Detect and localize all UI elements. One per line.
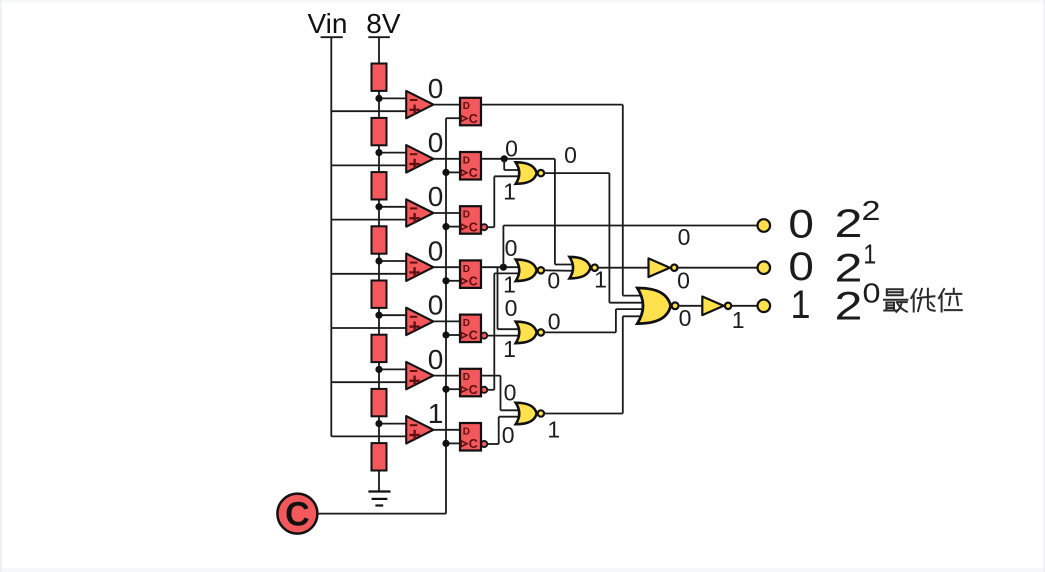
inverter U8 for bit 2^1 [649,258,678,277]
wire clock bus vertical [445,118,447,513]
D flip-flop FF6 [460,369,487,397]
wire Q2 into NOR G3 input 1 [555,264,578,266]
svg-text:D: D [463,318,470,329]
resistor R7 [372,389,387,416]
wire bit 2^0 output line [730,305,757,307]
wire Vin input bus vertical [330,38,332,436]
node Q2 fanout junction [501,155,508,162]
svg-text:0: 0 [428,344,444,375]
wire FF4 Q output Q4 into NOR G2 input 1 [481,266,524,268]
wire Q1 drop to output NOR [622,105,624,296]
wire G4 output into output NOR input 3 [616,308,649,310]
wire clock stub to FF5 C input [446,334,460,336]
svg-text:1: 1 [503,272,516,298]
node clock bus junction row 6 [442,386,449,393]
FF7 inverted output bubble [481,441,487,447]
resistor R1 [372,64,387,91]
svg-text:0: 0 [428,181,444,212]
svg-text:D: D [463,426,470,437]
inverter U9 for bit 2^0 [702,297,731,316]
wire clock stub to FF6 C input [446,388,460,390]
wire Vin branch to comparator U3 non-inverting input [331,219,408,221]
wire Q4 into NOR G4 input 1 [498,328,524,330]
wire Vin branch to comparator U7 non-inverting input [331,435,408,437]
wire G1 output into output NOR input 2 [609,302,649,304]
svg-text:0: 0 [505,295,518,321]
svg-text:1: 1 [594,267,607,293]
svg-text:C: C [469,112,478,126]
wire G5 output into output NOR input 4 [623,315,649,317]
weight label 2^1 [835,239,877,291]
NOR gate G5 [516,403,544,425]
wire Q2 drop to NOR G3 [554,159,556,265]
wire G4 output riser to output NOR [615,309,617,332]
comparator U7 [406,416,433,443]
wire FF7 inverted output stub [487,443,499,445]
weight label 2^2 [835,195,881,246]
svg-text:0: 0 [863,278,881,309]
D flip-flop FF2 [460,152,481,180]
wire ladder node 2 to comparator U2 inverting input [379,152,408,154]
wire bit 2^1 output line [676,267,757,269]
svg-text:D: D [463,155,470,166]
svg-text:0: 0 [547,268,560,294]
output terminal 2^1 [758,261,771,274]
wire notQ7 into NOR G5 input 2 [499,416,524,418]
comparator U2 [406,145,433,172]
comparator U3 [406,199,433,226]
svg-text:C: C [469,275,478,289]
wire resistor ladder vertical [378,38,380,492]
wire comparator U5 output to FF5 D input [433,320,460,322]
wire Q4 riser to 2^2 output line [502,226,504,268]
wire 8V label bar [368,36,390,38]
svg-text:0: 0 [428,73,444,104]
FF6 inverted output bubble [481,387,487,393]
svg-text:8V: 8V [366,8,401,39]
svg-text:C: C [285,496,310,534]
wire clock source to clock bus [317,513,446,515]
wire G5 output riser to output NOR [622,316,624,413]
resistor R4 [372,226,387,253]
wire Q2 into NOR G1 input 1 [504,169,523,171]
wire clock stub to FF1 C input [446,117,460,119]
wire clock stub to FF4 C input [446,280,460,282]
wire Vin branch to comparator U1 non-inverting input [331,110,408,112]
D flip-flop FF5 [460,315,487,343]
D flip-flop FF1 [460,98,481,126]
svg-text:0: 0 [505,235,518,261]
svg-text:D: D [463,210,470,221]
svg-text:C: C [469,329,478,343]
node clock bus junction row 3 [442,223,449,230]
node clock bus junction row 5 [442,331,449,338]
wire Vin branch to comparator U6 non-inverting input [331,381,408,383]
node ladder node 5 [375,312,382,319]
node clock bus junction row 7 [442,440,449,447]
wire FF5 inverted output notQ5 into NOR G4 input 2 [487,335,523,337]
wire ladder node 5 to comparator U5 inverting input [379,314,408,316]
wire G4 output [543,331,616,333]
wire notQ3 into NOR G1 input 2 [494,175,523,177]
wire comparator U7 output to FF7 D input [433,429,460,431]
wire Vin label bar [321,36,343,38]
node ladder node 4 [375,257,382,264]
svg-text:1: 1 [863,239,876,270]
svg-text:Vin: Vin [308,8,348,39]
wire Vin branch to comparator U5 non-inverting input [331,327,408,329]
output NOR gate G6 [637,288,678,324]
weight label 2^0 [835,278,881,329]
svg-text:1: 1 [503,336,516,362]
output terminal 2^2 [758,219,771,232]
resistor R6 [372,335,387,362]
resistor R8 [372,443,387,470]
wire Q4 drop to NOR G4 [497,267,499,329]
svg-text:2: 2 [835,285,863,329]
wire G2 output into NOR G3 input 2 [543,269,577,272]
wire comparator U6 output to FF6 D input [433,375,460,377]
wire notQ7 riser to NOR G5 [498,417,500,444]
comparator U1 [406,91,433,118]
svg-text:D: D [463,101,470,112]
wire ladder node 3 to comparator U3 inverting input [379,206,408,208]
wire ladder node 4 to comparator U4 inverting input [379,260,408,262]
svg-text:1: 1 [732,307,745,333]
NOR gate G3 [570,257,598,279]
node clock bus junction row 4 [442,277,449,284]
svg-text:0: 0 [428,235,444,266]
wire G1 output [543,172,609,174]
svg-text:C: C [469,383,478,397]
D flip-flop FF4 [460,260,481,288]
wire ladder node 7 to comparator U7 inverting input [379,423,408,425]
FF5 inverted output bubble [481,333,487,339]
wire FF6 inverted output stub [487,389,494,391]
clock source C [277,494,317,534]
svg-text:0: 0 [428,127,444,158]
svg-text:0: 0 [788,203,814,247]
wire comparator U1 output to FF1 D input [433,104,460,106]
wire clock stub to FF7 C input [446,442,460,444]
wire notQ6 riser to NOR G2 [493,273,495,389]
resistor R3 [372,172,387,199]
wire comparator U4 output to FF4 D input [433,266,460,268]
D flip-flop FF3 [460,206,487,234]
svg-text:D: D [463,264,470,275]
wire Q6 drop to NOR G5 [500,376,502,411]
node ladder node 7 [375,420,382,427]
svg-text:2: 2 [862,195,881,226]
svg-text:C: C [469,220,478,234]
wire G6 output to inverter [678,305,703,307]
svg-text:2: 2 [835,202,863,246]
wire Q2 jog down to NOR G1 [503,159,505,170]
node ladder node 3 [375,203,382,210]
node ladder node 2 [375,149,382,156]
wire notQ6 into NOR G2 input 2 [494,272,523,274]
svg-text:D: D [463,372,470,383]
svg-text:0: 0 [505,136,518,162]
node Q4 fanout junction [500,264,507,271]
wire Q6 into NOR G5 input 1 [501,409,524,411]
wire FF3 inverted output stub [487,226,494,228]
node ladder node 6 [375,366,382,373]
NOR gate G2 [516,260,544,282]
wire FF6 Q output Q6 [481,375,501,377]
svg-text:0: 0 [677,268,690,294]
wire ladder node 6 to comparator U6 inverting input [379,368,408,370]
resistor R5 [372,281,387,308]
wire bit 2^2 output line [503,225,757,227]
FF3 inverted output bubble [481,224,487,230]
svg-text:C: C [469,437,478,451]
svg-text:C: C [469,166,478,180]
comparator U6 [406,362,433,389]
annotation text 最低位 (lowest bit) [884,289,962,312]
svg-text:0: 0 [548,309,561,335]
resistor R2 [372,118,387,145]
wire notQ3 riser to NOR G1 [493,176,495,227]
wire clock stub to FF2 C input [446,171,460,173]
svg-text:1: 1 [428,398,444,429]
node clock bus junction row 2 [442,169,449,176]
wire Vin branch to comparator U2 non-inverting input [331,164,408,166]
svg-text:1: 1 [547,417,560,443]
wire comparator U3 output to FF3 D input [433,212,460,214]
wire clock stub to FF3 C input [446,226,460,228]
wire ladder node 1 to comparator U1 inverting input [379,97,408,99]
wire G3 output to inverter [597,267,649,269]
wire G1 output drop to output NOR [608,173,610,303]
comparator U5 [406,308,433,335]
svg-text:0: 0 [679,305,692,331]
svg-text:1: 1 [791,283,811,327]
wire G5 output [543,413,623,415]
wire comparator U2 output to FF2 D input [433,158,460,160]
svg-text:0: 0 [428,290,444,321]
wire Vin branch to comparator U4 non-inverting input [331,273,408,275]
svg-text:0: 0 [502,422,515,448]
wire Q1 into output NOR input 1 [623,295,649,297]
ground [368,492,390,506]
D flip-flop FF7 [460,423,487,451]
svg-text:0: 0 [678,224,691,250]
NOR gate G1 [516,162,544,184]
comparator U4 [406,254,433,281]
svg-text:0: 0 [564,142,577,168]
wire FF2 Q output Q2 [481,158,555,160]
NOR gate G4 [516,322,544,344]
output terminal 2^0 [758,300,771,313]
node ladder node 1 [375,95,382,102]
wire FF1 Q output Q1 [481,104,623,106]
svg-text:1: 1 [503,179,516,205]
